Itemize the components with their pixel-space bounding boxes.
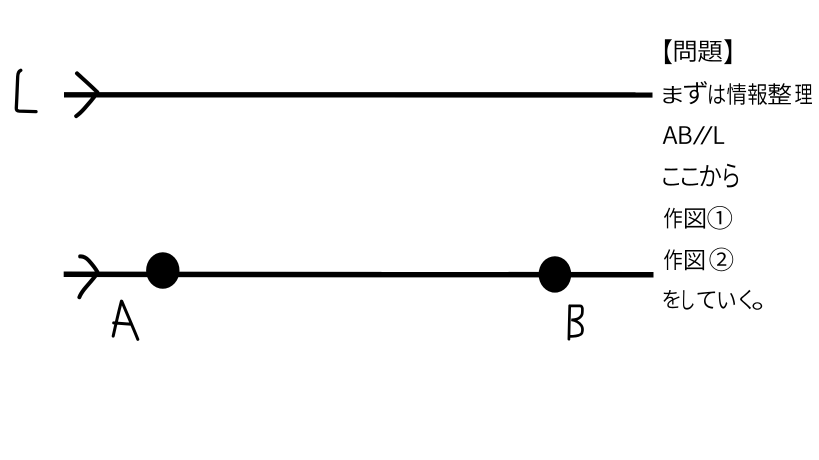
line L (top horizontal line) <box>64 92 653 97</box>
text line 6: 作図(2) <box>664 248 733 272</box>
text line 5: 作図(1) <box>664 206 732 230</box>
arrow head on line AB <box>79 256 97 297</box>
label B (hand-drawn letter) <box>569 306 583 340</box>
text line 3: AB//L <box>663 126 725 144</box>
label A (hand-drawn letter) <box>113 301 138 339</box>
text line 7: をしていく。 <box>663 290 762 310</box>
point B (filled dot) <box>539 256 572 292</box>
point A (filled dot) <box>146 252 179 288</box>
text line 1: 【問題】 <box>665 39 731 64</box>
text line 2: まずは情報整理 <box>663 81 812 105</box>
label L (hand-drawn letter) <box>16 70 36 111</box>
text line 4: ここから <box>663 164 738 188</box>
arrow head on line L <box>76 73 97 116</box>
line AB (bottom horizontal line) <box>64 272 654 278</box>
